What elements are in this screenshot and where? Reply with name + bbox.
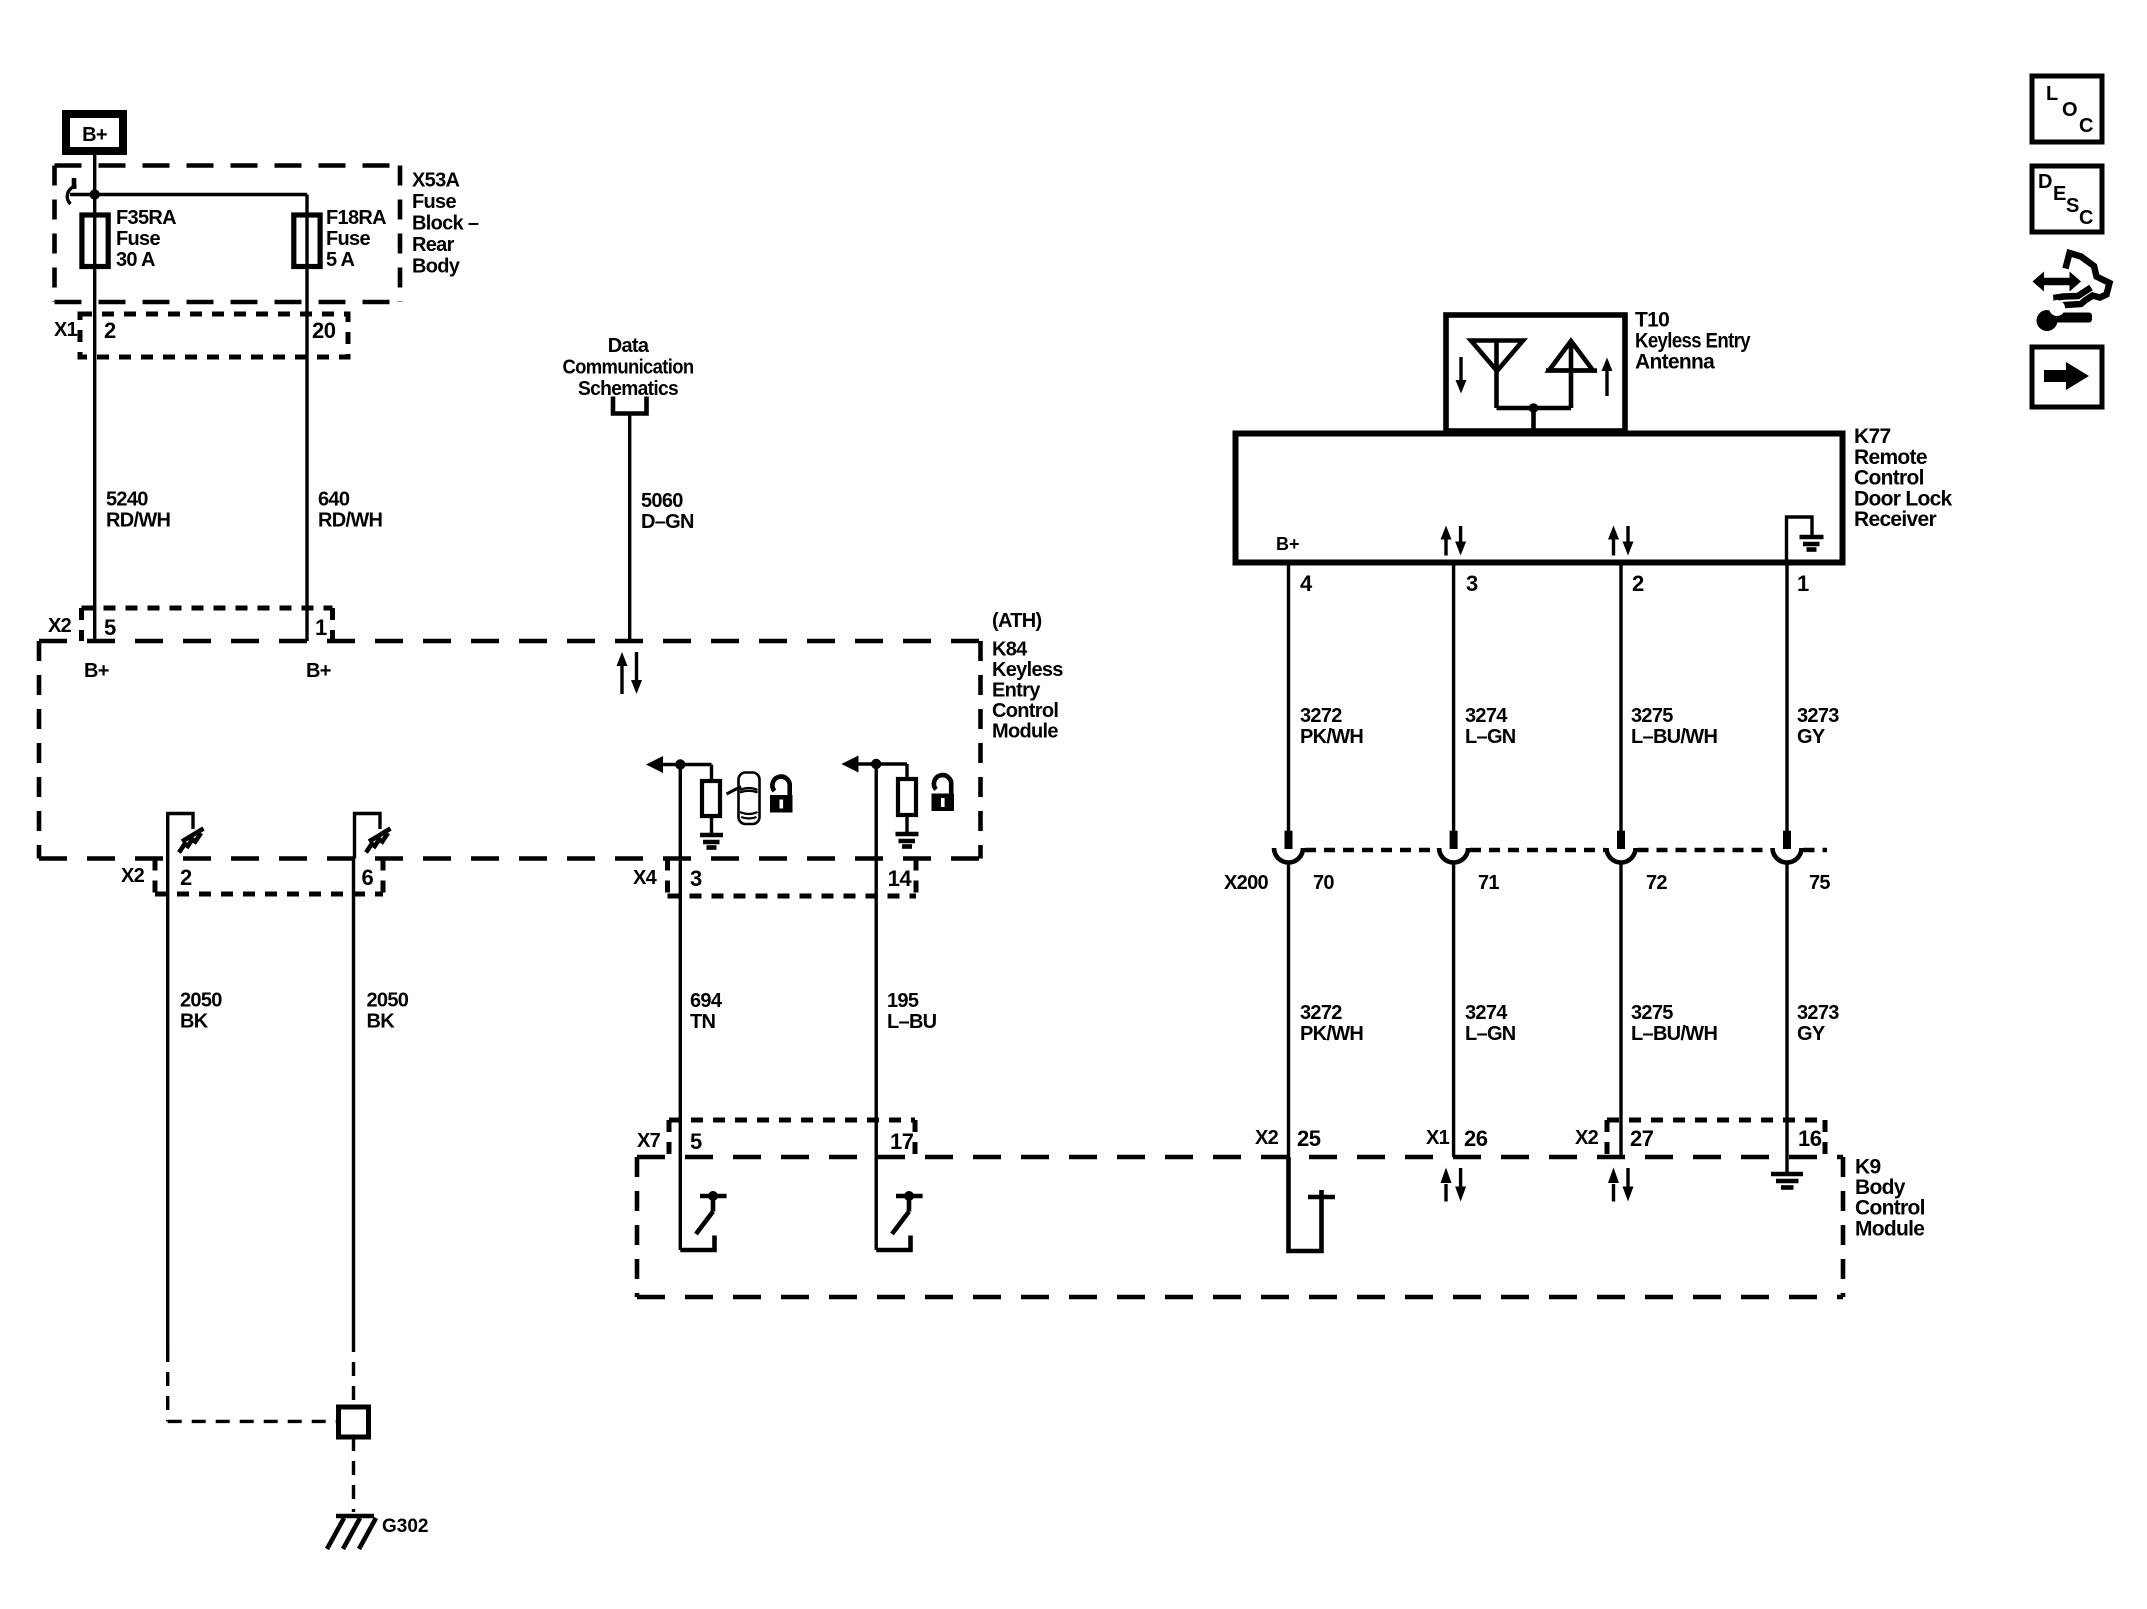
label wire 3272 PK/WH lower: [1300, 1002, 1363, 1045]
label wire 694 TN: [690, 990, 723, 1033]
inline connector X200 pin 70: [1274, 831, 1303, 863]
svg-text:30 A: 30 A: [116, 249, 155, 271]
svg-text:20: 20: [312, 318, 336, 343]
svg-text:B+: B+: [82, 124, 107, 146]
svg-text:3275: 3275: [1631, 1002, 1673, 1024]
off-page bracket for data link: [613, 397, 647, 414]
ground symbol in K84 circuit 2: [896, 834, 919, 847]
icon button LOC: [2032, 76, 2102, 142]
ground symbol in K84 circuit 1: [700, 835, 723, 848]
inline connector X200 pin 71: [1439, 831, 1468, 863]
fuse block bus clip: [67, 178, 76, 204]
wire K77 pin 3 to X200 pin 71: [1452, 562, 1455, 833]
svg-text:L–BU/WH: L–BU/WH: [1631, 1023, 1717, 1045]
svg-text:X53A: X53A: [412, 170, 459, 192]
switch symbol in K9 below pin 5: [680, 1191, 726, 1250]
svg-text:Control: Control: [1854, 467, 1924, 490]
svg-text:C: C: [2079, 115, 2093, 137]
svg-text:Receiver: Receiver: [1854, 508, 1936, 531]
svg-text:Fuse: Fuse: [326, 228, 370, 250]
icon button DESC: [2032, 166, 2102, 232]
svg-text:6: 6: [362, 865, 374, 890]
svg-text:Module: Module: [1855, 1217, 1924, 1240]
svg-text:D: D: [2038, 171, 2052, 193]
wire B+ feed down from B+ box: [93, 155, 96, 641]
svg-text:C: C: [2079, 207, 2093, 229]
svg-text:5: 5: [104, 615, 116, 640]
svg-text:RD/WH: RD/WH: [318, 510, 383, 532]
svg-text:X7: X7: [637, 1130, 661, 1152]
svg-text:S: S: [2066, 195, 2079, 217]
wire X200 72 to K9 pin 27: [1619, 863, 1622, 1158]
svg-text:TN: TN: [690, 1011, 716, 1033]
svg-text:26: 26: [1464, 1126, 1488, 1151]
splice junction box to G302: [339, 1407, 369, 1437]
wire splice to ground G302: [352, 1437, 355, 1512]
junction antenna feed: [1529, 403, 1539, 413]
label wire 3274 L-GN upper: [1465, 705, 1516, 748]
svg-text:GY: GY: [1797, 1023, 1826, 1045]
svg-text:17: 17: [890, 1129, 914, 1154]
svg-text:X2: X2: [1255, 1127, 1279, 1149]
label wire 3272 PK/WH upper: [1300, 705, 1363, 748]
svg-text:X2: X2: [121, 865, 145, 887]
svg-text:D–GN: D–GN: [641, 511, 694, 533]
svg-text:2: 2: [1632, 571, 1644, 596]
wire K77 pin 2 to X200 pin 72: [1619, 562, 1622, 833]
svg-text:3273: 3273: [1797, 1002, 1839, 1024]
wire F18RA branch down: [305, 195, 308, 642]
svg-text:Fuse: Fuse: [116, 228, 160, 250]
svg-text:5 A: 5 A: [326, 249, 355, 271]
wire X200 75 to K9 pin 16: [1785, 863, 1788, 1158]
label wire 3275 L-BU/WH lower: [1631, 1002, 1717, 1045]
receiver K77 box: [1236, 434, 1843, 563]
wire K77 pin 4 to X200 pin 70: [1287, 562, 1290, 833]
fuse F18RA: [294, 215, 320, 267]
arrow up in T10: [1602, 358, 1613, 397]
wire resistor 1 to ground: [710, 816, 713, 833]
wire K84 ground lead pin 2 hook: [168, 814, 193, 859]
svg-text:F35RA: F35RA: [116, 207, 176, 229]
svg-text:PK/WH: PK/WH: [1300, 726, 1363, 748]
icon vehicle navigation glyph: [2033, 253, 2110, 306]
svg-text:Entry: Entry: [992, 680, 1041, 702]
label F35RA Fuse 30 A: [116, 207, 176, 271]
svg-text:RD/WH: RD/WH: [106, 510, 171, 532]
svg-text:L–GN: L–GN: [1465, 1023, 1516, 1045]
connector X1 pin box: [80, 314, 348, 357]
chassis ground symbol above pin 6: [366, 829, 391, 853]
junction circuit 2: [871, 759, 881, 769]
icon unlock padlock 1: [770, 777, 793, 813]
ground symbol in K9 below pin 16: [1771, 1157, 1803, 1188]
resistor in K84 circuit 2: [898, 779, 916, 815]
wire X200 70 to K9 pin 25: [1287, 863, 1290, 1158]
label K77 Remote Control Door Lock Receiver: [1854, 425, 1953, 531]
icon wrench glyph: [2037, 300, 2093, 331]
svg-text:Antenna: Antenna: [1635, 351, 1715, 374]
node B+ battery feed box: [66, 114, 123, 151]
svg-text:B+: B+: [306, 660, 331, 682]
icon unlock padlock 2: [932, 775, 955, 811]
svg-text:Rear: Rear: [412, 234, 455, 256]
svg-text:3: 3: [690, 866, 702, 891]
label wire 3274 L-GN lower: [1465, 1002, 1516, 1045]
label Data Communication Schematics: [563, 335, 694, 400]
svg-text:(ATH): (ATH): [992, 610, 1041, 632]
svg-text:G302: G302: [382, 1516, 428, 1537]
svg-text:K84: K84: [992, 639, 1028, 661]
svg-text:2050: 2050: [180, 990, 222, 1012]
wire antenna to K77: [1531, 408, 1536, 433]
svg-text:X1: X1: [54, 319, 78, 341]
label wire 2050 BK right: [367, 990, 409, 1033]
wire bus from clip to F18RA branch: [70, 193, 307, 196]
connector X200 dotted line: [1305, 848, 1827, 853]
svg-text:Data: Data: [608, 335, 650, 357]
wire K84 ground lead pin 6 hook: [355, 814, 381, 859]
svg-text:3272: 3272: [1300, 1002, 1342, 1024]
svg-text:Body: Body: [1855, 1176, 1906, 1199]
svg-text:640: 640: [318, 489, 350, 511]
resistor in K84 circuit 1: [702, 781, 720, 816]
svg-text:GY: GY: [1797, 726, 1826, 748]
svg-text:694: 694: [690, 990, 723, 1012]
label wire 3273 GY upper: [1797, 705, 1839, 748]
svg-text:B+: B+: [1276, 534, 1300, 554]
svg-text:X2: X2: [48, 615, 72, 637]
wire 2050 BK left: [168, 859, 339, 1422]
fuse F35RA: [82, 215, 108, 267]
module K84 keyless entry control module box: [39, 641, 981, 859]
internal supply symbol in K9 below pin 25: [1289, 1157, 1336, 1251]
svg-text:K77: K77: [1854, 425, 1890, 448]
label wire 3275 L-BU/WH upper: [1631, 705, 1717, 748]
svg-text:F18RA: F18RA: [326, 207, 386, 229]
wire 5060 D-GN: [628, 414, 631, 642]
svg-text:Fuse: Fuse: [412, 191, 456, 213]
label wire 640 RD/WH: [318, 489, 383, 532]
svg-text:X1: X1: [1426, 1127, 1450, 1149]
serial data arrows in K77 pin 3: [1441, 526, 1467, 556]
svg-text:E: E: [2053, 183, 2066, 205]
svg-text:1: 1: [1797, 571, 1809, 596]
svg-text:4: 4: [1300, 571, 1313, 596]
svg-text:PK/WH: PK/WH: [1300, 1023, 1363, 1045]
label K9 Body Control Module: [1855, 1156, 1925, 1241]
module K9 body control module box: [637, 1157, 1843, 1297]
label (ATH) K84 Keyless Entry Control Module: [992, 610, 1063, 743]
svg-text:Control: Control: [992, 700, 1058, 722]
connector X2 pin box (K84 top): [82, 608, 333, 641]
antenna receive symbol: [1471, 341, 1523, 409]
internal ground symbol in K77: [1787, 517, 1824, 562]
svg-text:2: 2: [180, 865, 192, 890]
svg-text:Remote: Remote: [1854, 446, 1927, 469]
label wire 195 L-BU: [887, 990, 937, 1033]
svg-text:Keyless: Keyless: [992, 659, 1063, 681]
svg-text:Body: Body: [412, 256, 461, 278]
wire resistor 2 to ground: [905, 815, 908, 832]
svg-text:BK: BK: [367, 1011, 396, 1033]
svg-text:BK: BK: [180, 1011, 209, 1033]
svg-text:75: 75: [1809, 872, 1830, 894]
svg-text:71: 71: [1478, 872, 1499, 894]
wire X200 71 to K9 pin 26: [1452, 863, 1455, 1158]
svg-text:14: 14: [888, 866, 913, 891]
connector X2 pin box (K84 bottom): [155, 859, 383, 895]
label T10 Keyless Entry Antenna: [1635, 309, 1751, 374]
wire K77 pin 1 to X200 pin 75: [1785, 562, 1788, 833]
svg-text:5060: 5060: [641, 490, 683, 512]
connector X7 pin box: [669, 1120, 915, 1157]
svg-text:Communication: Communication: [563, 357, 694, 379]
svg-text:72: 72: [1646, 872, 1667, 894]
svg-text:L–BU/WH: L–BU/WH: [1631, 726, 1717, 748]
svg-text:25: 25: [1297, 1126, 1321, 1151]
svg-text:Module: Module: [992, 721, 1058, 743]
serial data up/down arrows in K84: [617, 652, 643, 694]
icon car top view: [727, 773, 760, 825]
wire 694 TN: [679, 765, 682, 1251]
svg-text:3272: 3272: [1300, 705, 1342, 727]
serial data arrows in K9 below pin 26: [1441, 1168, 1467, 1202]
svg-text:Door Lock: Door Lock: [1854, 487, 1953, 510]
svg-text:Block –: Block –: [412, 213, 479, 235]
inline connector X200 pin 72: [1607, 831, 1636, 863]
arrow down in T10: [1456, 357, 1467, 394]
svg-text:3: 3: [1466, 571, 1478, 596]
wire K84 lock output circuit 1: [646, 756, 712, 781]
svg-text:1: 1: [315, 615, 327, 640]
svg-text:T10: T10: [1635, 309, 1669, 332]
svg-text:5240: 5240: [106, 489, 148, 511]
icon button next arrow: [2032, 347, 2102, 407]
svg-text:195: 195: [887, 990, 919, 1012]
svg-text:O: O: [2062, 99, 2078, 121]
svg-text:Schematics: Schematics: [578, 378, 679, 400]
svg-text:L–GN: L–GN: [1465, 726, 1516, 748]
inline connector X200 pin 75: [1773, 831, 1802, 863]
junction circuit 1: [675, 759, 685, 769]
svg-text:L–BU: L–BU: [887, 1011, 937, 1033]
fuse block X53A module box: [55, 166, 401, 303]
antenna transmit symbol: [1546, 341, 1597, 408]
label X53A Fuse Block Rear Body: [412, 170, 479, 278]
svg-text:27: 27: [1630, 1126, 1654, 1151]
wire 195 L-BU: [875, 764, 878, 1250]
wire antenna feed: [1497, 406, 1572, 411]
svg-text:5: 5: [690, 1129, 702, 1154]
label wire 5060 D-GN: [641, 490, 694, 533]
svg-text:2: 2: [104, 318, 116, 343]
svg-text:3273: 3273: [1797, 705, 1839, 727]
svg-text:2050: 2050: [367, 990, 409, 1012]
svg-text:70: 70: [1313, 872, 1334, 894]
svg-text:3274: 3274: [1465, 1002, 1508, 1024]
connector X4 pin box: [668, 859, 917, 897]
svg-text:X2: X2: [1575, 1127, 1599, 1149]
ground G302 symbol: [327, 1516, 376, 1549]
switch symbol in K9 below pin 17: [876, 1191, 922, 1250]
label F18RA Fuse 5 A: [326, 207, 386, 271]
svg-text:3275: 3275: [1631, 705, 1673, 727]
svg-text:B+: B+: [84, 660, 109, 682]
wire K84 lock output circuit 2: [841, 756, 907, 780]
svg-text:Keyless Entry: Keyless Entry: [1635, 330, 1751, 353]
svg-text:3274: 3274: [1465, 705, 1508, 727]
svg-text:Control: Control: [1855, 1197, 1925, 1220]
svg-text:X200: X200: [1224, 872, 1268, 894]
chassis ground symbol above pin 2: [179, 829, 204, 853]
connector box around K9 pins 27 and 16: [1607, 1120, 1825, 1157]
svg-text:16: 16: [1798, 1126, 1822, 1151]
serial data arrows in K77 pin 2: [1608, 526, 1634, 556]
label wire 5240 RD/WH: [106, 489, 171, 532]
svg-text:X4: X4: [633, 867, 658, 889]
wire 2050 BK right: [352, 859, 355, 1408]
svg-text:L: L: [2046, 83, 2058, 105]
junction bus and B+ feed: [90, 189, 100, 199]
serial data arrows in K9 below pin 27: [1608, 1168, 1634, 1202]
antenna T10 box: [1446, 315, 1625, 431]
label wire 3273 GY lower: [1797, 1002, 1839, 1045]
label wire 2050 BK left: [180, 990, 222, 1033]
